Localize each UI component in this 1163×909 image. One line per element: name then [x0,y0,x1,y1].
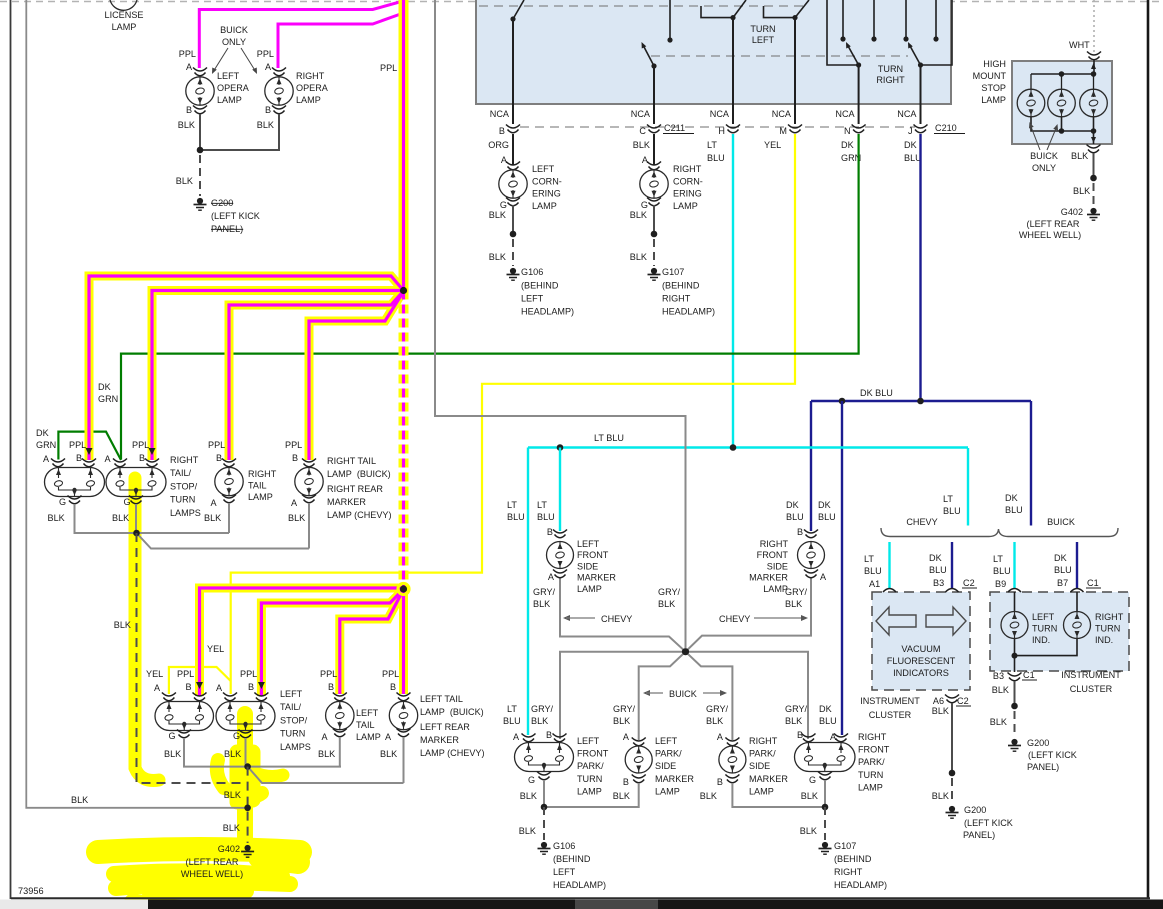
svg-text:DK: DK [819,704,832,714]
svg-text:TAIL: TAIL [356,720,375,730]
svg-text:BLK: BLK [932,706,949,716]
svg-text:PPL: PPL [208,440,225,450]
svg-text:PPL: PPL [285,440,302,450]
svg-text:BLK: BLK [164,749,181,759]
svg-text:BLK: BLK [288,513,305,523]
svg-text:LEFT: LEFT [577,539,600,549]
highlighter band upper over G402 area [98,849,300,862]
svg-text:B7: B7 [1057,578,1068,588]
svg-text:CHEVY: CHEVY [719,614,750,624]
svg-text:B: B [216,453,222,463]
svg-text:ONLY: ONLY [1032,163,1056,173]
svg-text:CORN-: CORN- [673,176,703,186]
svg-text:MARKER: MARKER [327,497,366,507]
switch arm & wire for J terminal [921,0,953,65]
svg-text:LT BLU: LT BLU [594,433,624,443]
svg-text:BLK: BLK [633,140,650,150]
svg-text:WHT: WHT [1069,40,1090,50]
svg-text:RIGHT: RIGHT [760,539,789,549]
connector A left-tail lamp1 [162,693,176,697]
svg-text:BLK: BLK [992,685,1009,695]
wire BLK dashed to G107 [653,239,655,266]
svg-text:A: A [642,155,649,165]
svg-text:BLK: BLK [801,791,818,801]
svg-text:B: B [328,682,334,692]
svg-text:G: G [123,497,130,507]
svg-text:G: G [233,731,240,741]
wire BLK from top-left down to G402 node [26,0,246,808]
svg-text:BLU: BLU [507,512,525,522]
switch arm & wire for C terminal [653,66,655,104]
connector A right park/turn [834,734,848,738]
junction dot opera BLK [197,147,204,154]
svg-text:LAMP: LAMP [858,782,883,792]
switch internal dashed linkage line 1 [479,5,806,7]
svg-text:PPL: PPL [69,440,86,450]
wire BLK dashed to G402 [247,767,249,843]
svg-text:INSTRUMENT: INSTRUMENT [1061,670,1121,680]
highlighter blob over left tail lamp ground junction [237,714,253,842]
svg-text:A: A [717,732,724,742]
svg-text:BLK: BLK [785,716,802,726]
svg-text:ONLY: ONLY [222,37,246,47]
svg-text:BLK: BLK [114,620,131,630]
svg-text:BUICK: BUICK [220,25,248,35]
svg-text:DK: DK [1054,553,1067,563]
svg-text:BLK: BLK [48,513,65,523]
VFI left arrow icon [876,607,916,635]
svg-text:BLK: BLK [800,826,817,836]
svg-text:A: A [623,732,630,742]
svg-text:(LEFT KICK: (LEFT KICK [1028,750,1077,760]
svg-text:TURN: TURN [170,495,195,505]
svg-text:C210: C210 [935,123,957,133]
lamp partial LICENSE LAMP [110,0,137,10]
svg-text:LAMP: LAMP [749,786,774,796]
svg-text:N: N [844,126,851,136]
connector bump B3 [946,589,959,593]
svg-text:PARK/: PARK/ [577,761,604,771]
wire DK BLU to right front side marker [810,401,812,531]
connector pin B [506,125,520,129]
svg-text:LAMP (CHEVY): LAMP (CHEVY) [420,748,485,758]
lamp RIGHT TAIL LAMP [215,467,243,495]
connector B3 C1 [1008,673,1022,677]
junction dot [510,231,517,238]
svg-text:LAMP: LAMP [296,95,321,105]
wire gray from top to X junction [435,0,686,648]
svg-text:BLU: BLU [904,153,922,163]
box instrument cluster turn indicators [990,592,1129,671]
svg-text:NCA: NCA [490,109,510,119]
svg-text:RIGHT: RIGHT [673,164,702,174]
lamp RIGHT TAIL/STOP/TURN LAMPS 2 [106,468,166,497]
svg-text:BUICK: BUICK [669,689,697,699]
svg-text:LAMP: LAMP [577,584,602,594]
svg-text:BLU: BLU [819,716,837,726]
svg-text:PPL: PPL [380,63,397,73]
svg-text:B3: B3 [993,671,1004,681]
svg-text:ORG: ORG [488,140,509,150]
svg-text:A: A [501,155,508,165]
junction dot G402 node [244,805,251,812]
junction dot [651,231,658,238]
connector B right-tail lamp1 [82,459,96,463]
svg-text:BLK: BLK [990,717,1007,727]
svg-text:BLK: BLK [520,791,537,801]
svg-text:CLUSTER: CLUSTER [869,710,912,720]
svg-text:OPERA: OPERA [296,83,329,93]
svg-text:FLUORESCENT: FLUORESCENT [887,656,956,666]
svg-text:NCA: NCA [710,109,730,119]
buick arrows [643,690,650,696]
svg-text:TURN: TURN [1095,624,1120,634]
svg-text:BLU: BLU [1005,505,1023,515]
svg-text:G: G [809,775,816,785]
svg-text:BLK: BLK [519,826,536,836]
wire BLK left opera [199,114,201,150]
svg-text:HIGH: HIGH [983,59,1006,69]
svg-text:A: A [385,732,392,742]
wire GRY/BLK to right park/side marker A [686,652,733,740]
connector A6 C2 [945,695,959,699]
junction dot LT BLU [557,444,564,451]
svg-text:G200: G200 [211,198,233,208]
switch wire for H terminal (turn left) [701,6,733,18]
switch contact stub [669,0,671,40]
wire joining turn indicators [1015,639,1078,656]
svg-text:LAMP: LAMP [248,492,273,502]
connector A left opera [193,68,207,72]
svg-text:LAMP: LAMP [356,732,381,742]
svg-text:PPL: PPL [179,49,196,59]
wire BLK dashed to G402 right [1093,183,1095,206]
svg-text:G200: G200 [1027,738,1049,748]
lamp LEFT REAR MARKER LAMP [389,701,417,729]
svg-text:BLK: BLK [1071,151,1088,161]
junction dot right-tail BLK [133,530,140,537]
svg-text:BLK: BLK [613,791,630,801]
svg-text:B9: B9 [995,579,1006,589]
junction dot VFI BLK [949,770,956,777]
svg-text:A: A [186,62,193,72]
svg-text:PPL: PPL [257,49,274,59]
connector B right opera [272,106,286,110]
svg-text:B: B [717,777,723,787]
wire BLK dashed to G107 [824,807,826,840]
svg-text:(LEFT REAR: (LEFT REAR [186,857,239,867]
svg-text:TURN: TURN [858,770,883,780]
svg-text:HEADLAMP): HEADLAMP) [834,880,887,890]
svg-text:RIGHT REAR: RIGHT REAR [327,484,383,494]
svg-text:LEFT: LEFT [752,35,775,45]
halo left tail fan [200,588,404,696]
box VACUUM FLUORESCENT INDICATORS [872,592,970,690]
junction dot PPL upper [400,287,407,294]
svg-text:BLK: BLK [223,823,240,833]
svg-text:PARK/: PARK/ [655,749,682,759]
lamp RIGHT FRONT PARK/TURN LAMP [795,743,856,772]
wire DK BLU to cluster B7 [1076,542,1078,588]
switch contact stub J-left [905,0,907,39]
svg-text:RIGHT: RIGHT [876,75,905,85]
svg-text:YEL: YEL [207,644,224,654]
svg-text:DK: DK [98,382,111,392]
svg-text:TURN: TURN [878,64,903,74]
connector A left rear marker [397,729,411,733]
svg-text:BLU: BLU [993,566,1011,576]
wire GRY/BLK left park/turn B to X [560,652,686,739]
svg-text:A1: A1 [869,579,880,589]
lamp LEFT TURN IND [1001,612,1028,639]
svg-text:FRONT: FRONT [577,550,609,560]
svg-text:CHEVY: CHEVY [906,517,937,527]
svg-text:TAIL/: TAIL/ [280,702,302,712]
lamp LEFT OPERA LAMP [186,77,214,105]
svg-text:HEADLAMP): HEADLAMP) [662,307,715,317]
svg-text:BLK: BLK [489,252,506,262]
svg-text:LEFT REAR: LEFT REAR [420,722,470,732]
ground G402 left rear wheel well [245,845,251,851]
svg-text:YEL: YEL [764,140,781,150]
connector B left opera [193,106,207,110]
svg-text:LAMP (BUICK): LAMP (BUICK) [420,707,484,717]
svg-text:LEFT: LEFT [553,867,576,877]
ground G200 left kick panel [197,198,203,204]
svg-text:NCA: NCA [897,109,917,119]
lamp RIGHT OPERA LAMP [265,77,293,105]
svg-text:DK BLU: DK BLU [860,388,893,398]
connector B right tail lamp [222,459,236,463]
svg-text:GRY/: GRY/ [785,704,808,714]
wire LT BLU to instrument cluster [967,448,969,526]
svg-text:LAMP: LAMP [655,786,680,796]
wire BLK left park/side B [544,783,639,807]
ground G200 cluster [1011,739,1017,745]
lamp RIGHT REAR MARKER LAMP [295,467,323,495]
svg-text:SIDE: SIDE [767,561,788,571]
connector A right rear marker [302,495,316,499]
connector A left tail lamp [333,729,347,733]
wire into left turn ind [1014,592,1016,611]
junction dot left park BLK [541,804,548,811]
svg-text:BLK: BLK [224,749,241,759]
svg-text:G106: G106 [553,841,575,851]
chevy arrow left [563,615,570,621]
wire DK BLU to right front park/turn lamp [841,401,843,735]
connector dashed line [520,126,915,128]
svg-text:MARKER: MARKER [655,774,694,784]
svg-text:TURN: TURN [280,729,305,739]
junction dot DK BLU 2 [917,398,924,405]
wire DK BLU to VFI B3 [951,542,953,588]
svg-text:A: A [265,62,272,72]
svg-text:STOP/: STOP/ [280,715,308,725]
svg-text:BLK: BLK [700,791,717,801]
svg-text:LEFT TAIL: LEFT TAIL [420,694,463,704]
svg-text:C: C [639,126,646,136]
svg-text:BLK: BLK [204,513,221,523]
svg-text:B: B [390,682,396,692]
svg-text:BLK: BLK [658,599,675,609]
svg-text:BLK: BLK [71,795,88,805]
svg-text:PPL: PPL [240,669,257,679]
svg-text:DK: DK [1005,493,1018,503]
svg-text:TAIL: TAIL [248,481,267,491]
high mount lamp 2 [1061,74,1063,89]
svg-text:PPL: PPL [177,669,194,679]
svg-text:SIDE: SIDE [749,761,770,771]
connector B right park/turn [802,734,816,738]
svg-text:B3: B3 [933,578,944,588]
svg-text:TAIL/: TAIL/ [170,468,192,478]
wire PPL to right-tail lamp2 B [152,291,404,461]
switch contact stub N-right [873,0,875,39]
svg-text:LAMPS: LAMPS [170,508,201,518]
wire ORG from B [512,134,514,165]
svg-text:(BEHIND: (BEHIND [662,281,700,291]
svg-text:G: G [641,200,648,210]
svg-text:BUICK: BUICK [1030,151,1058,161]
svg-text:A: A [548,572,555,582]
svg-text:GRN: GRN [98,394,118,404]
svg-text:G107: G107 [834,841,856,851]
svg-text:GRY/: GRY/ [706,704,729,714]
wire BLK left park/turn G [543,780,545,807]
connector pin J [914,125,928,129]
wire BLK right-tail bus [75,503,230,533]
svg-text:G402: G402 [218,844,240,854]
svg-text:OPERA: OPERA [217,83,250,93]
wire NCA stub J [920,104,922,124]
svg-text:LICENSE: LICENSE [105,10,144,20]
box HIGH MOUNT STOP LAMP [1012,61,1112,144]
svg-text:BUICK: BUICK [1047,517,1075,527]
svg-text:G: G [59,497,66,507]
svg-text:BLU: BLU [929,565,947,575]
svg-text:G: G [500,200,507,210]
high mount top bus [1031,73,1094,75]
svg-text:CHEVY: CHEVY [601,614,632,624]
svg-text:C2: C2 [963,578,975,588]
connector B right-tail lamp2 [145,459,159,463]
connector pin C [647,125,661,129]
wire NCA stub N [858,104,860,124]
connector below high mount box [1087,145,1101,149]
svg-text:LT: LT [707,140,717,150]
wire LT BLU horizontal bus [528,446,968,448]
svg-text:LAMP: LAMP [577,786,602,796]
svg-text:LEFT: LEFT [280,689,303,699]
junction dot PPL lower [400,585,407,592]
svg-text:BLK: BLK [489,210,506,220]
svg-text:WHEEL WELL): WHEEL WELL) [1019,230,1081,240]
svg-text:BLU: BLU [707,153,725,163]
svg-text:LT: LT [943,494,953,504]
svg-text:C1: C1 [1023,670,1035,680]
wire NCA stub B [512,104,514,124]
svg-text:PANEL): PANEL) [963,830,995,840]
connector A left cornering [506,162,520,166]
connector G left-tail lamp2 [239,730,253,734]
switch contact stub N-left [842,0,844,39]
svg-text:MARKER: MARKER [420,735,459,745]
svg-text:A: A [104,454,111,464]
svg-text:INDICATORS: INDICATORS [893,668,949,678]
switch contact & wire for B terminal [512,19,514,104]
svg-text:LAMP: LAMP [532,201,557,211]
ground G200 VFI [949,806,955,812]
svg-text:DK: DK [929,553,942,563]
wire BLK dashed to G200 [199,155,201,196]
wire YEL branch to left lamp A [169,667,231,694]
svg-text:PPL: PPL [320,669,337,679]
connector pin H [726,125,740,129]
connector G left park/turn [537,772,551,776]
wire BLK right park/turn G [824,780,826,807]
svg-text:G200: G200 [964,805,986,815]
svg-text:BLU: BLU [818,512,836,522]
brace [881,528,1118,537]
svg-text:LEFT: LEFT [1032,612,1055,622]
svg-text:DK: DK [904,140,917,150]
svg-text:H: H [718,126,725,136]
lamp LEFT TAIL LAMP [326,701,354,729]
lamp LEFT PARK/SIDE MARKER LAMP [625,746,652,773]
connector A left park/turn [522,734,536,738]
svg-text:ERING: ERING [673,189,702,199]
wire NCA stub H [732,104,734,124]
wire PPL trunk dashed core [402,291,405,590]
svg-text:LAMP (BUICK): LAMP (BUICK) [327,469,391,479]
high mount lamp 1 [1030,74,1032,89]
svg-text:G: G [528,775,535,785]
svg-text:BLK: BLK [380,749,397,759]
svg-text:BLK: BLK [630,252,647,262]
svg-text:SIDE: SIDE [577,561,598,571]
svg-text:LAMPS: LAMPS [280,742,311,752]
svg-text:BLK: BLK [531,716,548,726]
svg-text:BLK: BLK [630,210,647,220]
svg-text:FRONT: FRONT [858,745,890,755]
svg-text:BLU: BLU [1054,565,1072,575]
wire GRY/BLK left side marker A to X [560,577,686,652]
wire PPL to right rear marker B [309,292,404,461]
svg-text:RIGHT: RIGHT [170,455,199,465]
high mount lamp 3 [1093,74,1095,89]
svg-text:GRY/: GRY/ [531,704,554,714]
svg-text:B: B [248,682,254,692]
wire DK BLU horizontal bus [811,400,1031,402]
svg-text:B: B [292,453,298,463]
svg-text:PPL: PPL [132,440,149,450]
svg-text:GRY/: GRY/ [533,587,556,597]
wire PPL to right tail lamp B [229,291,404,460]
svg-text:B: B [546,730,552,740]
wire BLK dashed right-tail to G402 node [137,533,247,783]
connector B right park/side [725,775,739,779]
svg-text:B: B [76,453,82,463]
wire PPL to left tail lamp B [340,590,404,695]
connector B left-tail lamp1 [193,693,207,697]
connector B left rear marker [397,693,411,697]
lamp LEFT FRONT PARK/TURN LAMP [515,743,574,772]
svg-text:BLK: BLK [1073,186,1090,196]
svg-text:BLU: BLU [943,506,961,516]
X junction dot [682,648,689,655]
wire PPL to left-tail lamp1 B [200,588,404,696]
svg-text:PARK/: PARK/ [858,757,885,767]
